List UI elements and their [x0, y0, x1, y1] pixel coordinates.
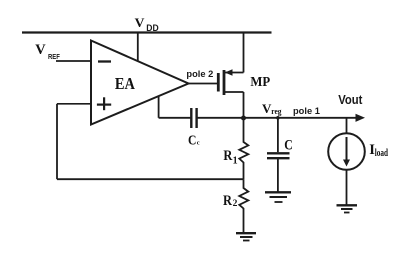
svg-text:Vout: Vout: [338, 92, 363, 107]
svg-text:MP: MP: [250, 75, 270, 90]
svg-text:pole 2: pole 2: [186, 69, 213, 79]
svg-text:c: c: [197, 139, 200, 146]
svg-text:R: R: [223, 148, 232, 164]
svg-text:reg: reg: [271, 107, 281, 116]
svg-text:pole 1: pole 1: [293, 106, 320, 116]
svg-text:1: 1: [233, 155, 238, 166]
svg-text:2: 2: [233, 199, 238, 209]
svg-text:load: load: [375, 148, 389, 159]
svg-text:EA: EA: [115, 74, 135, 93]
svg-text:C: C: [188, 133, 196, 148]
svg-text:R: R: [223, 193, 232, 209]
svg-text:DD: DD: [146, 23, 158, 34]
svg-text:C: C: [284, 137, 293, 153]
svg-text:V: V: [135, 16, 146, 30]
svg-text:V: V: [35, 42, 46, 58]
svg-text:REF: REF: [48, 54, 60, 61]
